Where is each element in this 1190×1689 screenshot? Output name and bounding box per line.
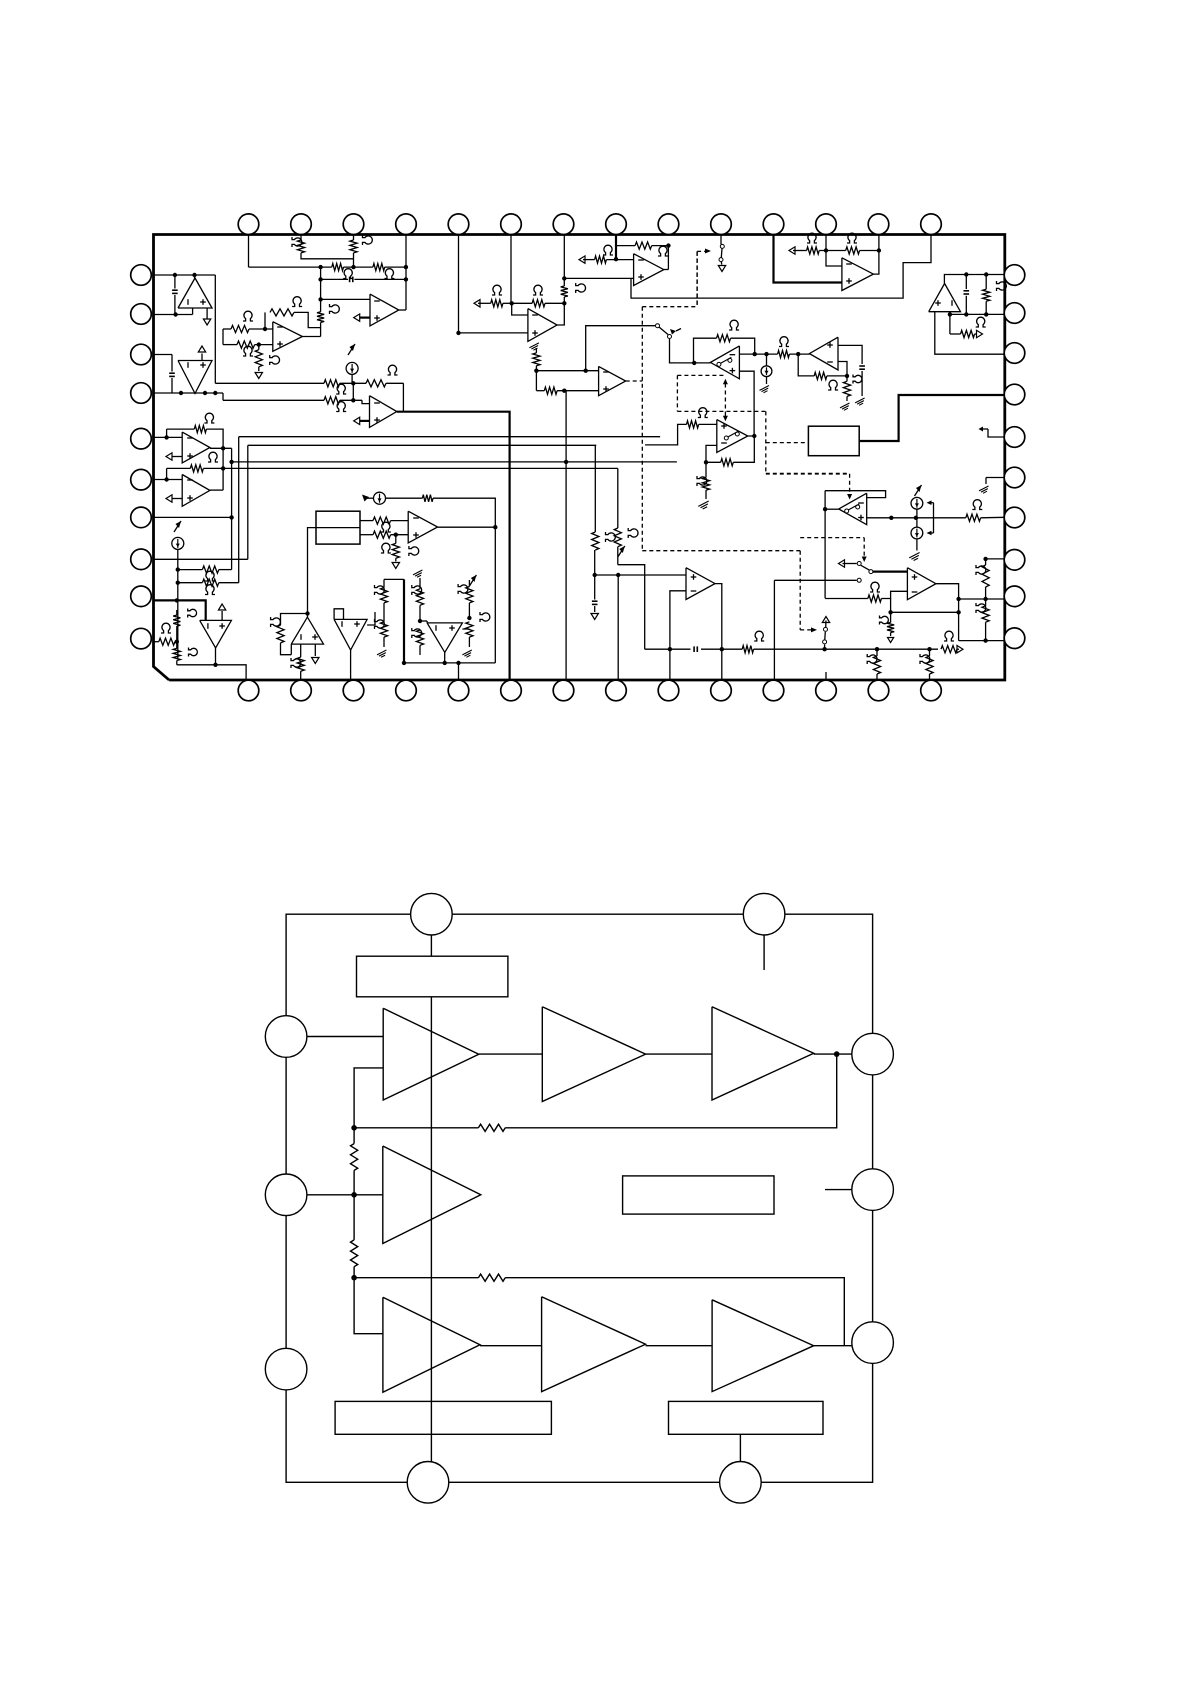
wire I2 chain	[177, 549, 179, 658]
dash h y537	[800, 537, 864, 539]
pin right 10	[1004, 628, 1025, 649]
wire U12 bottom rail	[177, 664, 216, 666]
label u4b1	[336, 402, 346, 412]
wire vert x223	[222, 393, 224, 400]
resistor B1 plus gnd	[258, 345, 260, 350]
current source I5	[915, 485, 922, 496]
wire B2 out	[399, 309, 406, 311]
resistor U18 gnd	[890, 612, 892, 622]
node i2d	[175, 640, 179, 644]
wire pin14 net	[631, 235, 931, 299]
wire U17 out line	[867, 517, 966, 519]
amplifier A2	[542, 1007, 645, 1102]
wire U16 plus	[838, 345, 862, 364]
wire mid stub	[825, 1189, 852, 1191]
pin bottom 11	[763, 680, 784, 701]
pin bottom 10	[711, 680, 732, 701]
amplifier A5	[383, 1297, 480, 1392]
circle right pin3	[852, 1322, 894, 1364]
wire row1 chain b	[646, 1053, 712, 1055]
pin bottom 7	[553, 680, 574, 701]
switch S1	[720, 244, 724, 248]
circle bottom pin2	[720, 1462, 762, 1504]
wire U7 plus	[459, 332, 528, 334]
wire row1 chain a	[479, 1053, 543, 1055]
wire S3 throw2	[774, 579, 856, 581]
node b1	[263, 327, 267, 331]
pin bottom 13	[868, 680, 889, 701]
node u23	[824, 248, 828, 252]
node u4a	[351, 381, 355, 385]
node c2	[418, 619, 422, 623]
node p7l	[229, 515, 233, 519]
label R pin3T	[363, 235, 373, 245]
circle left pin2	[265, 1174, 307, 1216]
amplifier A7	[712, 1300, 814, 1392]
op-amp U16	[809, 337, 838, 370]
pin top 13	[868, 214, 889, 235]
op-amp U7	[528, 309, 557, 342]
resistor fb row3	[478, 1274, 505, 1281]
block box1	[316, 511, 360, 544]
ground chain1	[377, 650, 386, 655]
block mid box	[623, 1176, 774, 1214]
wire pin4T stub	[405, 235, 407, 311]
wire pin5R hook	[988, 429, 1005, 437]
wire U14 right in	[367, 612, 375, 625]
node rv1	[983, 557, 987, 561]
pin right 3	[1004, 343, 1025, 364]
wire U17 fb loop	[825, 491, 886, 498]
resistor pin14B	[929, 649, 931, 656]
dash net h2	[642, 550, 800, 552]
amplifier A6	[542, 1297, 646, 1392]
node u8c	[562, 389, 566, 393]
wire U15 out	[444, 652, 446, 663]
wire U9 plus drop	[739, 371, 754, 436]
wire pin3T stub	[353, 235, 355, 241]
label U9 right	[779, 337, 789, 347]
label U9 fb	[729, 320, 739, 330]
resistor chain1b	[380, 622, 387, 637]
node s4a	[875, 647, 879, 651]
node row1 out	[834, 1051, 840, 1057]
label U23 a	[807, 233, 817, 243]
wire pin6L	[154, 479, 183, 481]
label pin8B	[628, 528, 638, 538]
dash box2 in	[766, 442, 809, 444]
node i2a	[176, 567, 180, 571]
resistor chain3b	[466, 622, 473, 637]
resistor U16 fb	[814, 372, 827, 379]
wire box2 drop	[739, 1434, 741, 1461]
wire bus1	[239, 436, 660, 438]
current source I4	[766, 354, 768, 366]
resistor U10 gnd	[705, 462, 707, 477]
op-amp U8	[599, 366, 626, 395]
node u6p	[562, 276, 566, 280]
resistor U7 in1	[474, 300, 480, 307]
node u24b	[984, 272, 988, 276]
pin top 6	[501, 214, 522, 235]
node r2b	[404, 277, 408, 281]
label U6 in	[603, 245, 613, 255]
wire U6 plus drop	[630, 278, 632, 298]
pin left 3	[131, 344, 152, 365]
wire U23 minus	[826, 251, 842, 267]
dash rect c	[765, 411, 767, 473]
wire U9 right	[739, 353, 777, 355]
resistor U7 cap	[563, 297, 565, 303]
circle right pin1	[852, 1033, 894, 1075]
block diagram outline	[286, 914, 873, 1482]
wire U22 plus line	[595, 574, 686, 576]
arrow S1 down	[720, 262, 722, 265]
dash U10 arrow	[724, 414, 726, 417]
rail u4a	[215, 382, 324, 384]
label U13 out	[291, 658, 301, 668]
wire U12 out	[216, 648, 247, 680]
wire fb row3	[354, 1277, 478, 1279]
dash U9 ctl	[724, 384, 726, 415]
label s4	[944, 631, 954, 641]
wire fb row1	[505, 1054, 837, 1128]
label c3a	[458, 584, 468, 594]
node u7a	[510, 301, 514, 305]
block bottom box1	[335, 1401, 551, 1434]
node a3	[179, 391, 183, 395]
resistor right v1	[985, 559, 987, 565]
resistor chain3a	[469, 575, 476, 586]
pin top 14	[921, 214, 942, 235]
label U18 gnd	[880, 616, 889, 625]
wire pin10R	[959, 640, 1005, 642]
resistor right v2	[985, 599, 987, 606]
node u18e	[956, 610, 960, 614]
op-amp U11	[408, 511, 437, 543]
node i3	[394, 533, 398, 537]
node u7b	[562, 301, 566, 305]
pin top 4	[396, 214, 417, 235]
cap line	[645, 648, 691, 650]
resistor U9 right	[778, 351, 790, 358]
op-amp U14	[334, 619, 367, 650]
wire vert 247	[247, 445, 249, 559]
arrow B2 plus	[358, 317, 370, 319]
bottom rail u15	[404, 662, 495, 664]
resistor L1 fb	[166, 429, 168, 437]
capacitor A2	[171, 355, 173, 372]
wire pin10L res	[154, 641, 159, 643]
label U24 res	[997, 281, 1007, 291]
wire pin2T stub	[300, 235, 302, 241]
node u9fb	[753, 352, 757, 356]
wire U12 top	[154, 600, 206, 620]
wire fb row1 b	[354, 1127, 478, 1129]
rail r2 capacitor	[321, 278, 348, 280]
pin left 8	[131, 549, 152, 570]
label U23 b	[847, 233, 857, 243]
wire chain1 top	[384, 578, 404, 580]
op-amp A2	[178, 361, 212, 394]
node u18fb	[888, 610, 892, 614]
wire U14 out	[350, 650, 352, 680]
wire U4 fb	[397, 383, 404, 411]
node u22c	[720, 647, 724, 651]
label U12 l1	[188, 609, 197, 618]
node a5	[203, 391, 207, 395]
current source I3	[374, 492, 386, 504]
wire pin12B stub	[825, 672, 827, 680]
resistor U13 out	[300, 644, 302, 657]
wire U11 out	[438, 526, 496, 528]
pin right 7	[1004, 507, 1025, 528]
wire U15 left in	[420, 620, 427, 622]
dash rect b	[677, 410, 765, 412]
capacitor U16	[859, 365, 865, 367]
capacitor A1	[174, 275, 176, 289]
op-amp L1	[182, 432, 210, 463]
pin left 7	[131, 507, 152, 528]
wire amp mid in	[286, 1194, 383, 1196]
ground I6	[909, 553, 919, 558]
node i56b	[889, 516, 893, 520]
label p14b	[920, 654, 930, 664]
label R pin2T	[292, 237, 302, 247]
node i2c	[175, 598, 179, 602]
resistor U12 left1	[176, 610, 178, 615]
pin bottom 3	[343, 680, 364, 701]
arrow L1 plus	[170, 456, 182, 458]
resistor U12 left2	[173, 648, 180, 660]
dash S1	[696, 251, 698, 306]
IC package outline	[154, 235, 1005, 681]
label U18 in	[870, 582, 880, 592]
label B1 in2	[243, 346, 253, 356]
wire pin1T stub	[248, 235, 250, 268]
node u24a	[964, 272, 968, 276]
wire pin4B vert	[403, 579, 405, 663]
dash U8 out	[626, 380, 643, 382]
wire U17 out	[825, 508, 839, 510]
op-amp U24	[929, 284, 961, 312]
ground U16a	[855, 398, 865, 403]
pin right 8	[1004, 550, 1025, 571]
pin left 9	[131, 586, 152, 607]
wire fb row3 b	[505, 1278, 844, 1346]
circle left pin1	[265, 1016, 307, 1058]
current source I2	[174, 521, 181, 532]
rail r1	[249, 266, 332, 268]
switch S3	[839, 560, 845, 567]
resistor U16 gnd	[843, 381, 850, 396]
label U7 in2	[533, 285, 543, 295]
label B1 in1	[243, 311, 253, 321]
arrow U22 gnd	[591, 614, 598, 620]
wire U13 base	[290, 644, 292, 655]
label U12 l2	[189, 648, 198, 657]
node c4	[443, 661, 447, 665]
label L1 fb	[204, 413, 214, 423]
wire S2 down	[670, 339, 678, 363]
circle top pin2	[743, 893, 785, 935]
label u22 in	[606, 532, 616, 542]
node fb row3	[351, 1275, 357, 1281]
arrow U18 gnd	[888, 638, 894, 643]
resistor U6 in	[579, 256, 585, 263]
node i2b	[176, 581, 180, 585]
wire amp1 in	[286, 1036, 383, 1038]
dash net h1	[642, 306, 697, 308]
wire pin8T stub	[615, 235, 617, 260]
label i2b	[205, 585, 215, 595]
op-amp U10	[717, 420, 748, 453]
node u6	[614, 257, 618, 261]
label x321	[330, 304, 340, 314]
wire U10 fb	[733, 436, 754, 462]
node b3	[318, 297, 322, 301]
dash h y375	[677, 374, 725, 376]
arrow U13 gnd	[314, 644, 316, 656]
wire U24 apex rail	[944, 275, 1004, 284]
resistor L2 fb bus4	[166, 468, 168, 479]
label box1 r1	[381, 522, 391, 532]
wire I3 line	[385, 497, 422, 499]
pin left 10	[131, 628, 152, 649]
pin right 4	[1004, 384, 1025, 405]
op-amp B2	[370, 294, 399, 326]
wire box2 out	[859, 395, 1005, 441]
node u6b	[666, 243, 670, 247]
resistor U8 gnd	[535, 348, 537, 353]
pin top 7	[553, 214, 574, 235]
label U7 in1	[492, 285, 502, 295]
wire U23 out	[873, 235, 879, 275]
op-amp U15	[427, 623, 462, 653]
label u4a2	[388, 365, 398, 375]
wire row3 chain a	[480, 1345, 542, 1347]
wire u6 fb left	[615, 246, 617, 260]
current source I6	[911, 527, 923, 539]
node u16	[845, 374, 849, 378]
resistor U8 plus	[536, 390, 544, 392]
label U11 plus	[409, 546, 419, 556]
ground chain3	[462, 650, 471, 655]
pin bottom 4	[396, 680, 417, 701]
label U16 fb	[828, 380, 838, 390]
resistor arrow s4	[941, 646, 957, 653]
op-amp U22	[686, 568, 715, 600]
circle left pin3	[265, 1348, 307, 1390]
node u22m	[668, 647, 672, 651]
pin top 11	[763, 214, 784, 235]
op-amp U23	[842, 258, 874, 291]
node pin2L	[173, 312, 177, 316]
node bus3	[229, 460, 233, 464]
resistor i2a	[202, 566, 218, 573]
label c1b	[375, 619, 385, 629]
wire pin2L	[154, 314, 193, 316]
node c5	[456, 661, 460, 665]
resistor B1 in1	[223, 328, 231, 330]
wire U22 out	[715, 584, 722, 680]
arrow S2	[670, 329, 676, 335]
dash U17 arrow	[849, 474, 851, 494]
pin left 6	[131, 469, 152, 490]
pin left 4	[131, 383, 152, 404]
wire I1 down	[351, 375, 353, 384]
node u10	[704, 460, 708, 464]
pin bottom 5	[448, 680, 469, 701]
dash net v3	[799, 551, 801, 630]
wire S3 U18	[873, 570, 908, 572]
node s4b	[927, 647, 931, 651]
resistor u22 in top	[594, 550, 596, 575]
wire pin5L	[154, 436, 183, 438]
op-amp U6	[634, 254, 664, 286]
wire top pin2 drop	[763, 914, 765, 970]
node u12o	[213, 663, 217, 667]
wire pin7T stub	[563, 235, 565, 279]
wire U6 out	[664, 269, 669, 271]
wire U7 minus	[512, 303, 528, 315]
op-amp B1	[273, 322, 303, 352]
label c2a	[412, 585, 422, 595]
pin bottom 2	[291, 680, 312, 701]
arrow U12 up	[221, 611, 223, 620]
dash net v2	[696, 252, 698, 307]
wire B1 out	[302, 336, 320, 338]
wire vert x223b	[222, 329, 224, 345]
wire pin5T stub	[458, 235, 460, 333]
node u4b	[351, 398, 355, 402]
wire pin3L	[154, 354, 173, 356]
switch S4	[822, 617, 829, 623]
op-amp U18	[907, 568, 936, 600]
node l3	[164, 477, 168, 481]
arrow I3	[364, 497, 374, 499]
resistor U6 fb	[616, 245, 635, 247]
wire rail main	[430, 997, 432, 1462]
ground arrow A1	[206, 308, 208, 319]
label c3b	[480, 612, 490, 622]
wire U17 vert	[824, 491, 826, 599]
node u9b	[796, 352, 800, 356]
resistor pin13B	[876, 649, 878, 656]
label box1 r2	[381, 543, 391, 553]
wire bus2	[248, 444, 597, 446]
current source I1	[348, 344, 355, 355]
wire U8 minus	[536, 370, 598, 372]
node l1	[164, 435, 168, 439]
wire pin5B stub	[458, 663, 460, 680]
node r1c	[404, 265, 408, 269]
wire pin8B jog	[618, 565, 645, 650]
wire pin8B vert	[617, 575, 619, 680]
op-amp U17	[839, 493, 867, 525]
wire pin11B vert2	[773, 580, 775, 680]
pin left 1	[131, 265, 152, 286]
pin right 5	[1004, 427, 1025, 448]
label U24 arrow	[976, 317, 986, 327]
node bus3x	[564, 460, 568, 464]
wire U24 left drop	[935, 312, 1005, 355]
pin left 2	[131, 304, 152, 325]
pin top 9	[658, 214, 679, 235]
node u24c	[948, 312, 952, 316]
resistor box1 r2	[360, 534, 373, 536]
resistor chain2b	[416, 630, 423, 645]
